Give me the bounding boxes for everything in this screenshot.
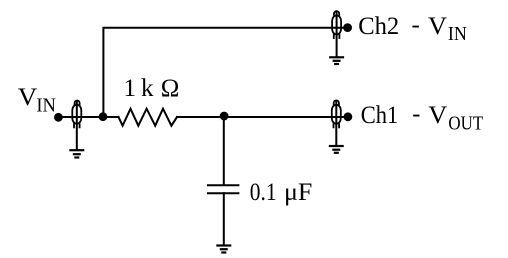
node: Ch1 terminal dot (344, 112, 353, 121)
wire: capacitor bottom plate to ground (223, 193, 225, 245)
wire: resistor right lead to Ch1 dot (177, 116, 348, 118)
ground (below capacitor) (216, 246, 231, 253)
svg-text:1kΩ: 1kΩ (124, 75, 180, 102)
ground (Ch2 probe) (329, 57, 344, 64)
capacitor C1 top plate (208, 184, 238, 186)
capacitor C1 bottom plate (208, 192, 238, 194)
svg-text:0.1μF: 0.1μF (250, 179, 313, 206)
node B: junction dot (capacitor) (220, 112, 229, 121)
wire: VIN dot to resistor (through input probe) (58, 116, 118, 118)
node: Ch2 terminal dot (343, 23, 352, 32)
wire: node B down to capacitor top plate (223, 117, 225, 185)
resistor R1 (1 kOhm zigzag) (119, 109, 178, 126)
svg-text:Ch1-VOUT: Ch1-VOUT (361, 100, 483, 134)
svg-text:Ch2-VIN: Ch2-VIN (358, 11, 467, 45)
svg-text:VIN: VIN (18, 84, 56, 117)
ground (VIN probe) (69, 150, 84, 157)
probe Ch1 (332, 100, 341, 145)
probe P1 (VIN input connector) (72, 101, 81, 150)
node A: junction dot (top branch) (99, 112, 108, 121)
probe Ch2 (332, 11, 341, 57)
ground (Ch1 probe) (329, 146, 344, 153)
node: VIN terminal dot (54, 113, 63, 122)
wire: top branch from node A up and right to Ch2 probe (103, 28, 347, 117)
